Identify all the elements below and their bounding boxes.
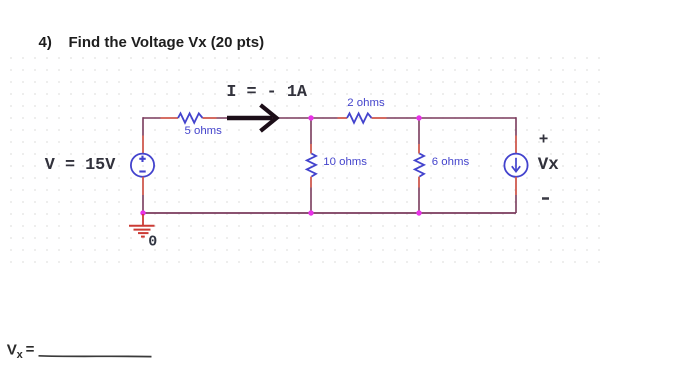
resistor 5 ohms: [178, 113, 203, 122]
svg-text:Vx: Vx: [538, 155, 560, 175]
svg-text:0: 0: [148, 233, 157, 250]
wire top-left horizontal (maroon): [143, 117, 161, 119]
wire left vertical upper (maroon): [142, 117, 144, 135]
svg-text:2 ohms: 2 ohms: [347, 97, 385, 109]
resistor 2 ohms: [347, 113, 372, 122]
junction node top middle 1: [308, 115, 313, 120]
resistor 6 ohms: [415, 154, 424, 177]
svg-text:V = 15V: V = 15V: [45, 156, 116, 175]
voltage source minus mark: [139, 170, 145, 172]
svg-text:=: =: [26, 341, 35, 358]
voltage source V1 circle: [131, 154, 154, 177]
Vx minus sign: [542, 197, 549, 200]
wire pin above R 6ohms (red): [418, 144, 420, 154]
current direction arrow: [227, 105, 277, 131]
svg-text:5 ohms: 5 ohms: [185, 125, 223, 137]
wire pin below voltage source (red): [142, 177, 144, 195]
svg-text:Find the Voltage Vx (20 pts): Find the Voltage Vx (20 pts): [69, 34, 265, 51]
title text: [39, 34, 265, 51]
junction node top middle 2: [416, 115, 421, 120]
svg-text:+: +: [539, 131, 549, 149]
wire middle vertical 1 lower (maroon): [310, 188, 312, 214]
wire pin above voltage source (red): [142, 136, 144, 154]
svg-text:x: x: [17, 349, 24, 361]
answer label Vx =: [7, 341, 35, 361]
wire pin below R 6ohms (red): [418, 177, 420, 188]
wire pin right of R 5ohms (red): [203, 117, 217, 119]
current source arrow (down): [512, 158, 520, 172]
junction node bottom middle 1: [308, 210, 313, 215]
wire middle vertical 2 upper (maroon): [418, 118, 420, 144]
wire middle vertical 2 lower (maroon): [418, 188, 420, 214]
wire pin below current source (red): [515, 177, 517, 195]
current source circle: [504, 154, 527, 177]
wire pin left of R 5ohms (red): [161, 117, 179, 119]
wire left vertical lower (maroon): [142, 195, 144, 213]
svg-text:10 ohms: 10 ohms: [323, 156, 367, 168]
wire right vertical lower (maroon): [515, 195, 517, 213]
junction node bottom left (ground): [140, 210, 145, 215]
voltage source plus mark: [139, 156, 145, 162]
ground symbol: [129, 214, 155, 237]
wire right vertical upper (maroon): [515, 117, 517, 135]
wire pin below R 10ohms (red): [310, 177, 312, 188]
wire pin above current source (red): [515, 136, 517, 154]
wire middle vertical 1 upper (maroon): [310, 118, 312, 144]
svg-text:6 ohms: 6 ohms: [432, 156, 470, 168]
resistor 10 ohms: [307, 154, 316, 177]
svg-text:I = - 1A: I = - 1A: [226, 83, 307, 102]
svg-text:4): 4): [39, 34, 52, 51]
answer blank line: [39, 355, 152, 358]
wire top right (maroon): [387, 117, 517, 119]
wire pin right of R 2ohms (red): [372, 117, 387, 119]
wire pin left of R 2ohms (red): [338, 117, 348, 119]
wire bottom horizontal (maroon): [143, 212, 516, 214]
wire pin above R 10ohms (red): [310, 144, 312, 154]
wire top middle (maroon): [217, 117, 338, 119]
junction node bottom middle 2: [416, 210, 421, 215]
